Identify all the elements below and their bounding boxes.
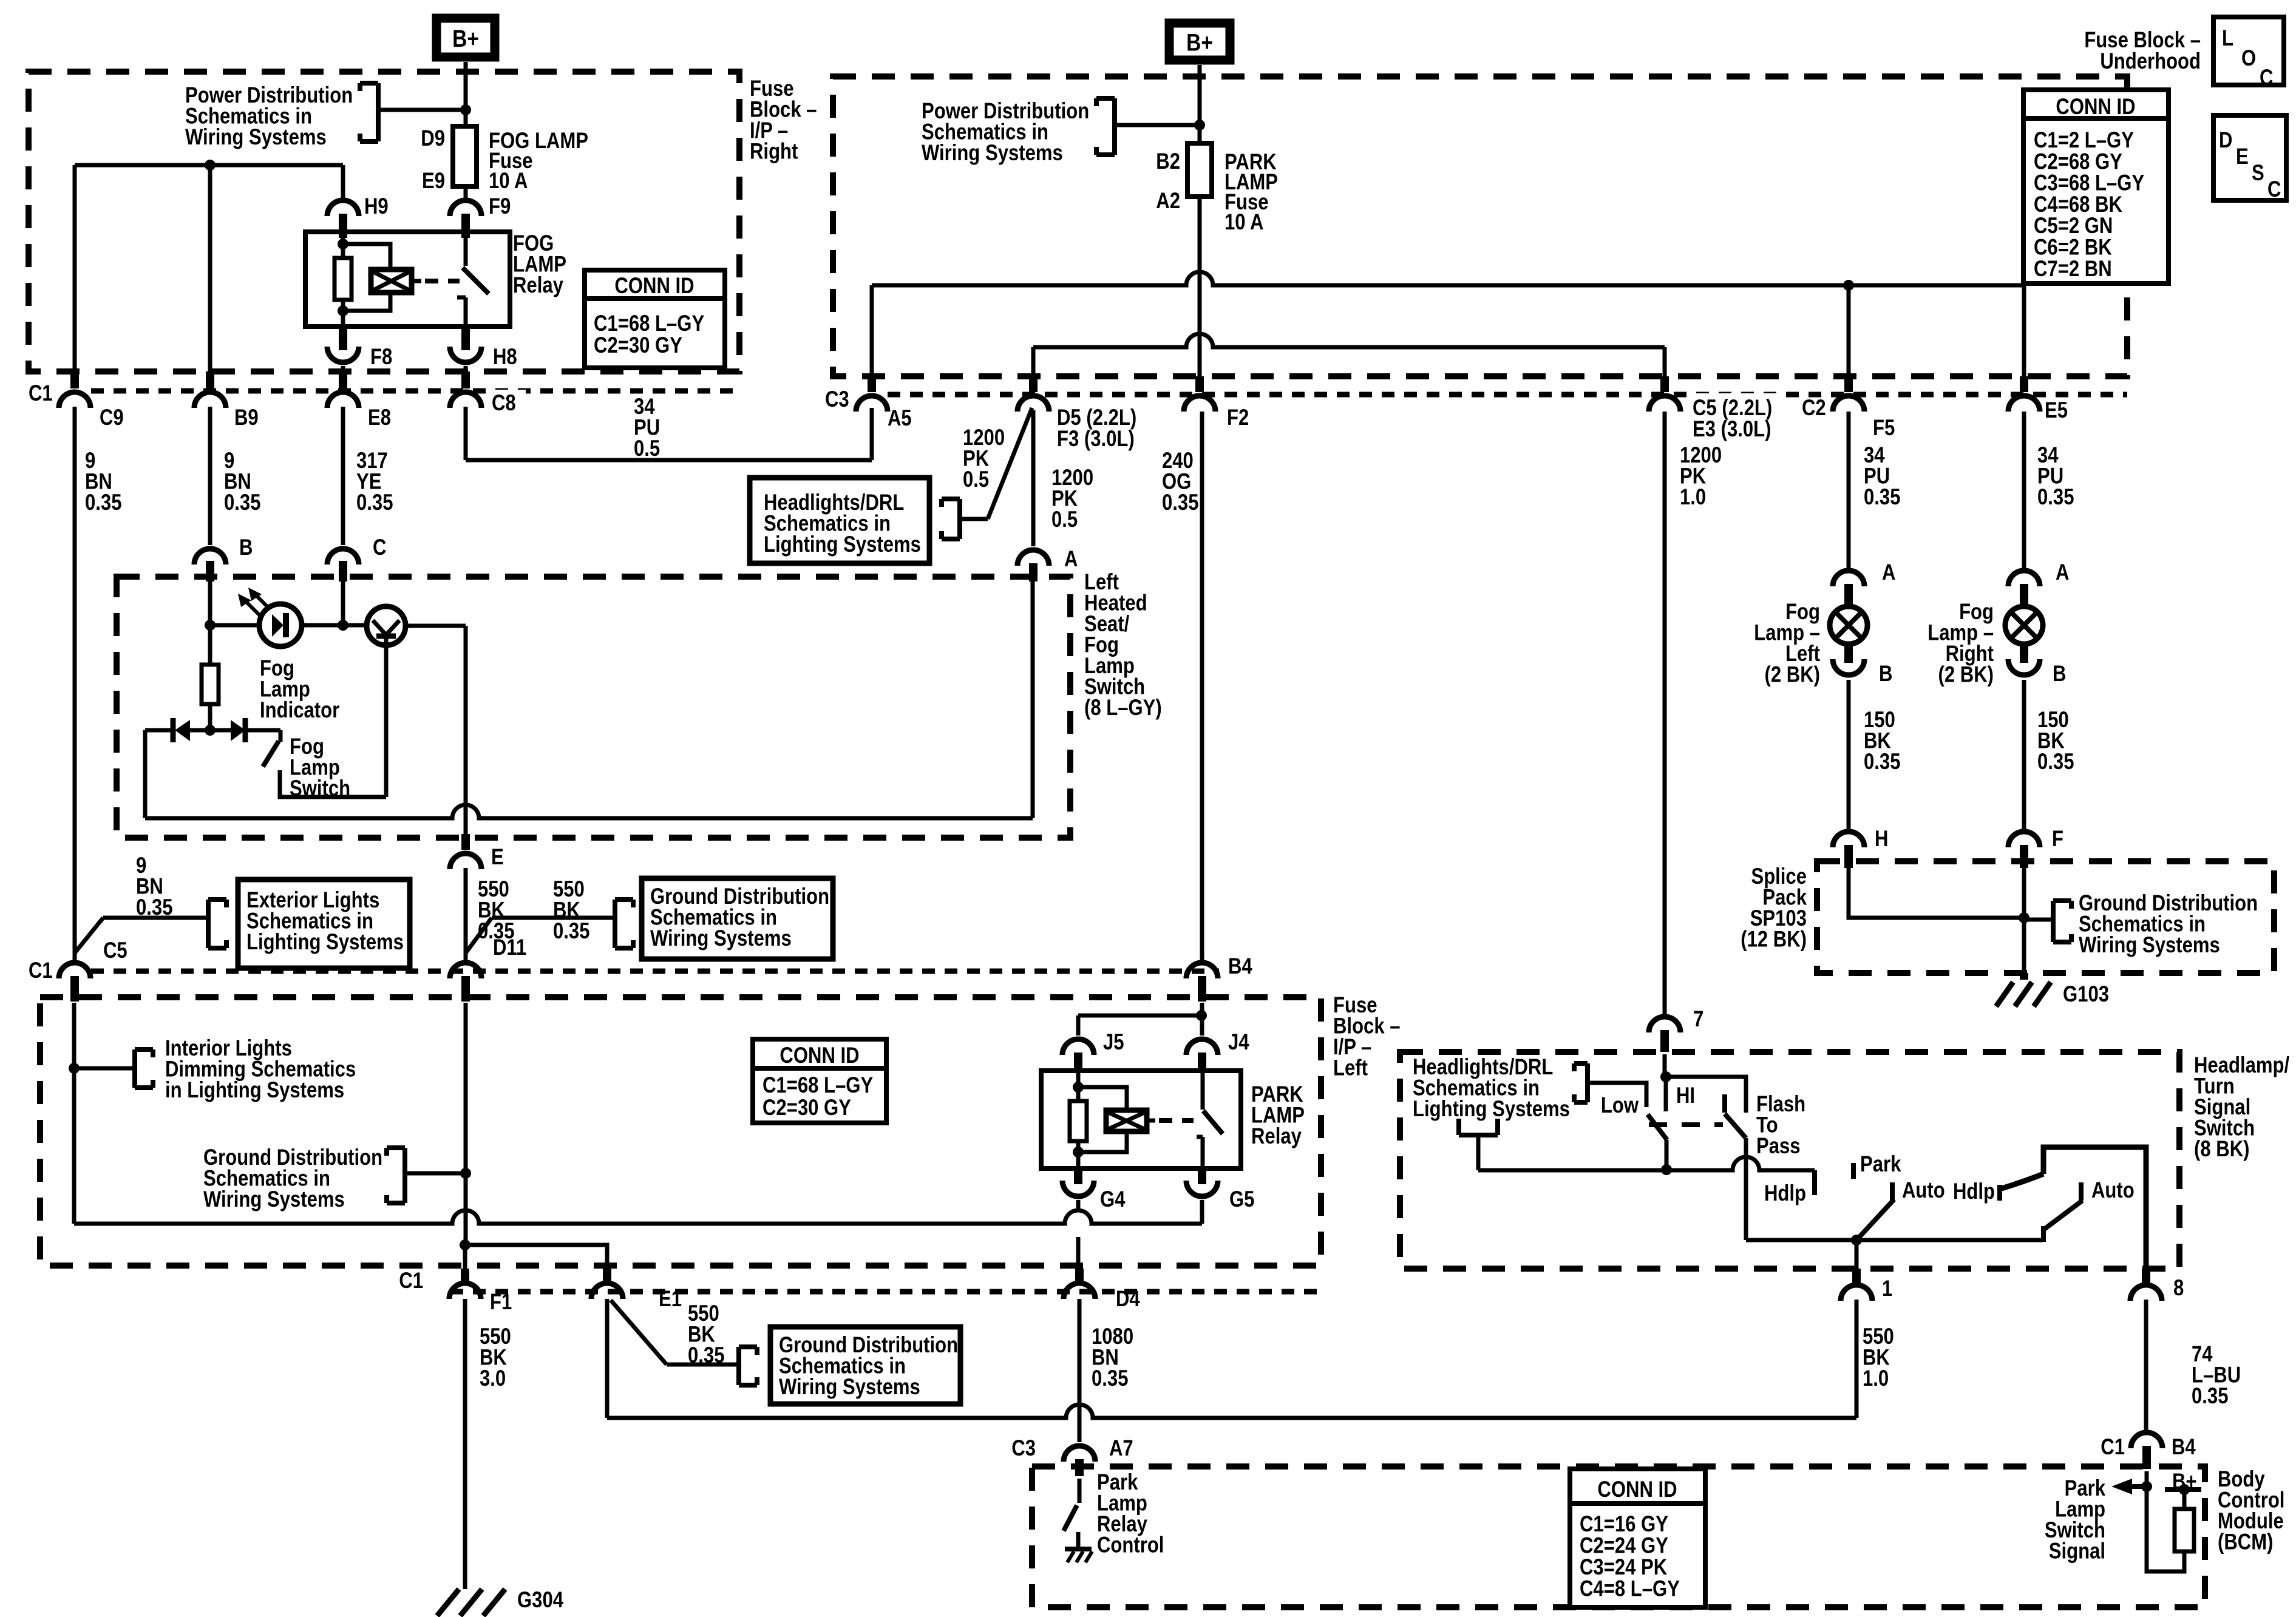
svg-text:HI: HI bbox=[1676, 1083, 1695, 1108]
svg-text:F9: F9 bbox=[489, 194, 511, 219]
svg-text:H: H bbox=[1875, 827, 1888, 852]
svg-text:B+: B+ bbox=[452, 25, 479, 52]
svg-text:(2 BK): (2 BK) bbox=[1938, 662, 1994, 687]
svg-text:0.35: 0.35 bbox=[85, 490, 121, 515]
svg-text:Hdlp: Hdlp bbox=[1953, 1179, 1995, 1204]
svg-text:B: B bbox=[2053, 662, 2066, 686]
svg-text:A: A bbox=[1882, 560, 1895, 585]
svg-text:A2: A2 bbox=[1156, 189, 1180, 214]
svg-text:Low: Low bbox=[1601, 1093, 1639, 1118]
svg-text:Pass: Pass bbox=[1756, 1134, 1801, 1159]
svg-text:H8: H8 bbox=[493, 345, 517, 370]
svg-text:B+: B+ bbox=[2172, 1470, 2197, 1494]
svg-text:(2 BK): (2 BK) bbox=[1765, 662, 1820, 687]
svg-text:A: A bbox=[1064, 547, 1078, 572]
svg-text:CONN ID: CONN ID bbox=[2056, 95, 2135, 120]
svg-text:S: S bbox=[2252, 161, 2264, 186]
svg-text:Wiring Systems: Wiring Systems bbox=[185, 125, 327, 150]
svg-text:C1=68 L–GY: C1=68 L–GY bbox=[594, 311, 704, 336]
svg-text:F3 (3.0L): F3 (3.0L) bbox=[1057, 427, 1135, 452]
svg-text:B4: B4 bbox=[2172, 1435, 2196, 1460]
svg-text:1: 1 bbox=[1882, 1276, 1892, 1301]
svg-text:0.35: 0.35 bbox=[1864, 750, 1900, 775]
svg-text:0.5: 0.5 bbox=[1051, 507, 1078, 532]
svg-text:C7=2 BN: C7=2 BN bbox=[2034, 256, 2112, 281]
svg-text:C1: C1 bbox=[399, 1269, 423, 1293]
svg-text:0.5: 0.5 bbox=[963, 467, 989, 492]
svg-text:G5: G5 bbox=[1229, 1187, 1254, 1212]
svg-text:B2: B2 bbox=[1156, 149, 1180, 174]
svg-text:Wiring Systems: Wiring Systems bbox=[203, 1187, 345, 1212]
svg-text:C: C bbox=[373, 535, 386, 560]
svg-text:0.35: 0.35 bbox=[553, 919, 589, 944]
svg-text:E1: E1 bbox=[659, 1287, 682, 1312]
svg-text:A: A bbox=[2056, 560, 2069, 585]
svg-text:8: 8 bbox=[2173, 1276, 2184, 1301]
svg-text:O: O bbox=[2241, 46, 2256, 71]
svg-text:Wiring Systems: Wiring Systems bbox=[650, 926, 792, 951]
svg-text:C9: C9 bbox=[100, 405, 124, 430]
svg-text:0.35: 0.35 bbox=[136, 895, 172, 920]
svg-text:Lighting Systems: Lighting Systems bbox=[764, 532, 921, 557]
svg-text:L: L bbox=[2222, 26, 2233, 51]
svg-text:Relay: Relay bbox=[1251, 1124, 1302, 1149]
svg-text:B9: B9 bbox=[234, 405, 259, 430]
svg-text:G103: G103 bbox=[2063, 982, 2109, 1007]
svg-text:Park: Park bbox=[1860, 1152, 1901, 1177]
svg-text:C1: C1 bbox=[29, 958, 53, 983]
svg-text:C2=30 GY: C2=30 GY bbox=[594, 333, 682, 358]
svg-text:E8: E8 bbox=[368, 405, 391, 430]
svg-text:D11: D11 bbox=[493, 935, 526, 960]
svg-text:C1=68 L–GY: C1=68 L–GY bbox=[763, 1073, 873, 1098]
svg-text:B: B bbox=[239, 535, 253, 560]
svg-text:C2: C2 bbox=[1802, 396, 1826, 421]
svg-text:F: F bbox=[2052, 827, 2063, 852]
svg-text:(BCM): (BCM) bbox=[2218, 1530, 2273, 1554]
svg-text:A5: A5 bbox=[888, 406, 912, 431]
svg-text:D9: D9 bbox=[421, 126, 445, 151]
svg-text:Lighting Systems: Lighting Systems bbox=[246, 930, 404, 955]
svg-text:0.35: 0.35 bbox=[224, 490, 260, 515]
svg-text:3.0: 3.0 bbox=[480, 1366, 506, 1391]
svg-text:Control: Control bbox=[1097, 1533, 1164, 1558]
svg-text:C1: C1 bbox=[29, 381, 53, 406]
svg-text:Lighting Systems: Lighting Systems bbox=[1413, 1097, 1570, 1122]
svg-text:D: D bbox=[2219, 128, 2232, 153]
svg-text:C8: C8 bbox=[492, 391, 516, 416]
svg-text:C5: C5 bbox=[103, 938, 127, 963]
svg-text:1.0: 1.0 bbox=[1863, 1366, 1889, 1391]
svg-text:A7: A7 bbox=[1109, 1436, 1133, 1461]
svg-text:C4=8 L–GY: C4=8 L–GY bbox=[1580, 1576, 1680, 1601]
svg-text:0.35: 0.35 bbox=[356, 490, 393, 515]
svg-text:D4: D4 bbox=[1116, 1287, 1140, 1312]
svg-text:1.0: 1.0 bbox=[1680, 485, 1706, 510]
svg-text:F5: F5 bbox=[1873, 416, 1895, 441]
svg-text:F8: F8 bbox=[370, 345, 392, 370]
svg-text:Hdlp: Hdlp bbox=[1764, 1181, 1806, 1206]
svg-text:0.35: 0.35 bbox=[2037, 750, 2074, 775]
svg-text:H9: H9 bbox=[364, 194, 389, 219]
svg-text:7: 7 bbox=[1693, 1007, 1703, 1032]
svg-text:C: C bbox=[2267, 177, 2281, 202]
svg-text:10 A: 10 A bbox=[489, 169, 528, 194]
svg-text:(8 L–GY): (8 L–GY) bbox=[1084, 696, 1162, 720]
svg-text:Signal: Signal bbox=[2049, 1539, 2105, 1564]
svg-text:CONN ID: CONN ID bbox=[779, 1043, 859, 1068]
svg-text:E: E bbox=[2236, 144, 2249, 169]
svg-text:C3: C3 bbox=[1011, 1436, 1036, 1461]
svg-text:G304: G304 bbox=[517, 1588, 563, 1613]
svg-text:C3: C3 bbox=[825, 387, 849, 412]
svg-text:Right: Right bbox=[750, 139, 798, 164]
svg-text:0.35: 0.35 bbox=[1162, 490, 1198, 515]
svg-text:(8 BK): (8 BK) bbox=[2194, 1137, 2249, 1162]
svg-text:E3 (3.0L): E3 (3.0L) bbox=[1693, 417, 1771, 442]
svg-text:E9: E9 bbox=[422, 169, 445, 194]
svg-text:B: B bbox=[1879, 662, 1892, 686]
svg-text:0.5: 0.5 bbox=[634, 436, 660, 461]
svg-text:J4: J4 bbox=[1228, 1030, 1249, 1055]
svg-text:B4: B4 bbox=[1228, 954, 1252, 979]
svg-text:E: E bbox=[491, 845, 504, 870]
svg-text:G4: G4 bbox=[1100, 1187, 1125, 1212]
svg-text:Switch: Switch bbox=[290, 776, 350, 801]
svg-text:0.35: 0.35 bbox=[1864, 485, 1900, 510]
svg-text:Underhood: Underhood bbox=[2100, 49, 2201, 74]
svg-text:CONN ID: CONN ID bbox=[1597, 1477, 1677, 1502]
svg-text:Relay: Relay bbox=[513, 273, 563, 298]
svg-text:0.35: 0.35 bbox=[2037, 485, 2074, 510]
svg-text:C2=30 GY: C2=30 GY bbox=[763, 1096, 851, 1120]
svg-text:in Lighting Systems: in Lighting Systems bbox=[165, 1078, 344, 1103]
svg-text:10 A: 10 A bbox=[1224, 210, 1263, 235]
svg-text:CONN ID: CONN ID bbox=[614, 274, 694, 299]
svg-text:J5: J5 bbox=[1103, 1030, 1124, 1055]
svg-text:Wiring Systems: Wiring Systems bbox=[779, 1375, 920, 1400]
svg-text:C1: C1 bbox=[2101, 1435, 2125, 1460]
svg-text:0.35: 0.35 bbox=[1092, 1366, 1128, 1391]
svg-text:0.35: 0.35 bbox=[2192, 1384, 2228, 1409]
svg-text:B+: B+ bbox=[1186, 29, 1213, 56]
svg-text:Auto: Auto bbox=[1902, 1178, 1945, 1203]
svg-text:Wiring Systems: Wiring Systems bbox=[2079, 933, 2220, 958]
svg-text:F1: F1 bbox=[490, 1290, 512, 1315]
svg-text:Indicator: Indicator bbox=[260, 698, 339, 723]
svg-text:Auto: Auto bbox=[2091, 1178, 2135, 1203]
svg-text:E5: E5 bbox=[2045, 398, 2068, 423]
svg-text:Wiring Systems: Wiring Systems bbox=[922, 141, 1063, 166]
svg-text:(12 BK): (12 BK) bbox=[1741, 927, 1807, 952]
svg-text:F2: F2 bbox=[1227, 405, 1249, 430]
svg-text:C: C bbox=[2260, 66, 2273, 90]
svg-text:Left: Left bbox=[1333, 1056, 1368, 1080]
